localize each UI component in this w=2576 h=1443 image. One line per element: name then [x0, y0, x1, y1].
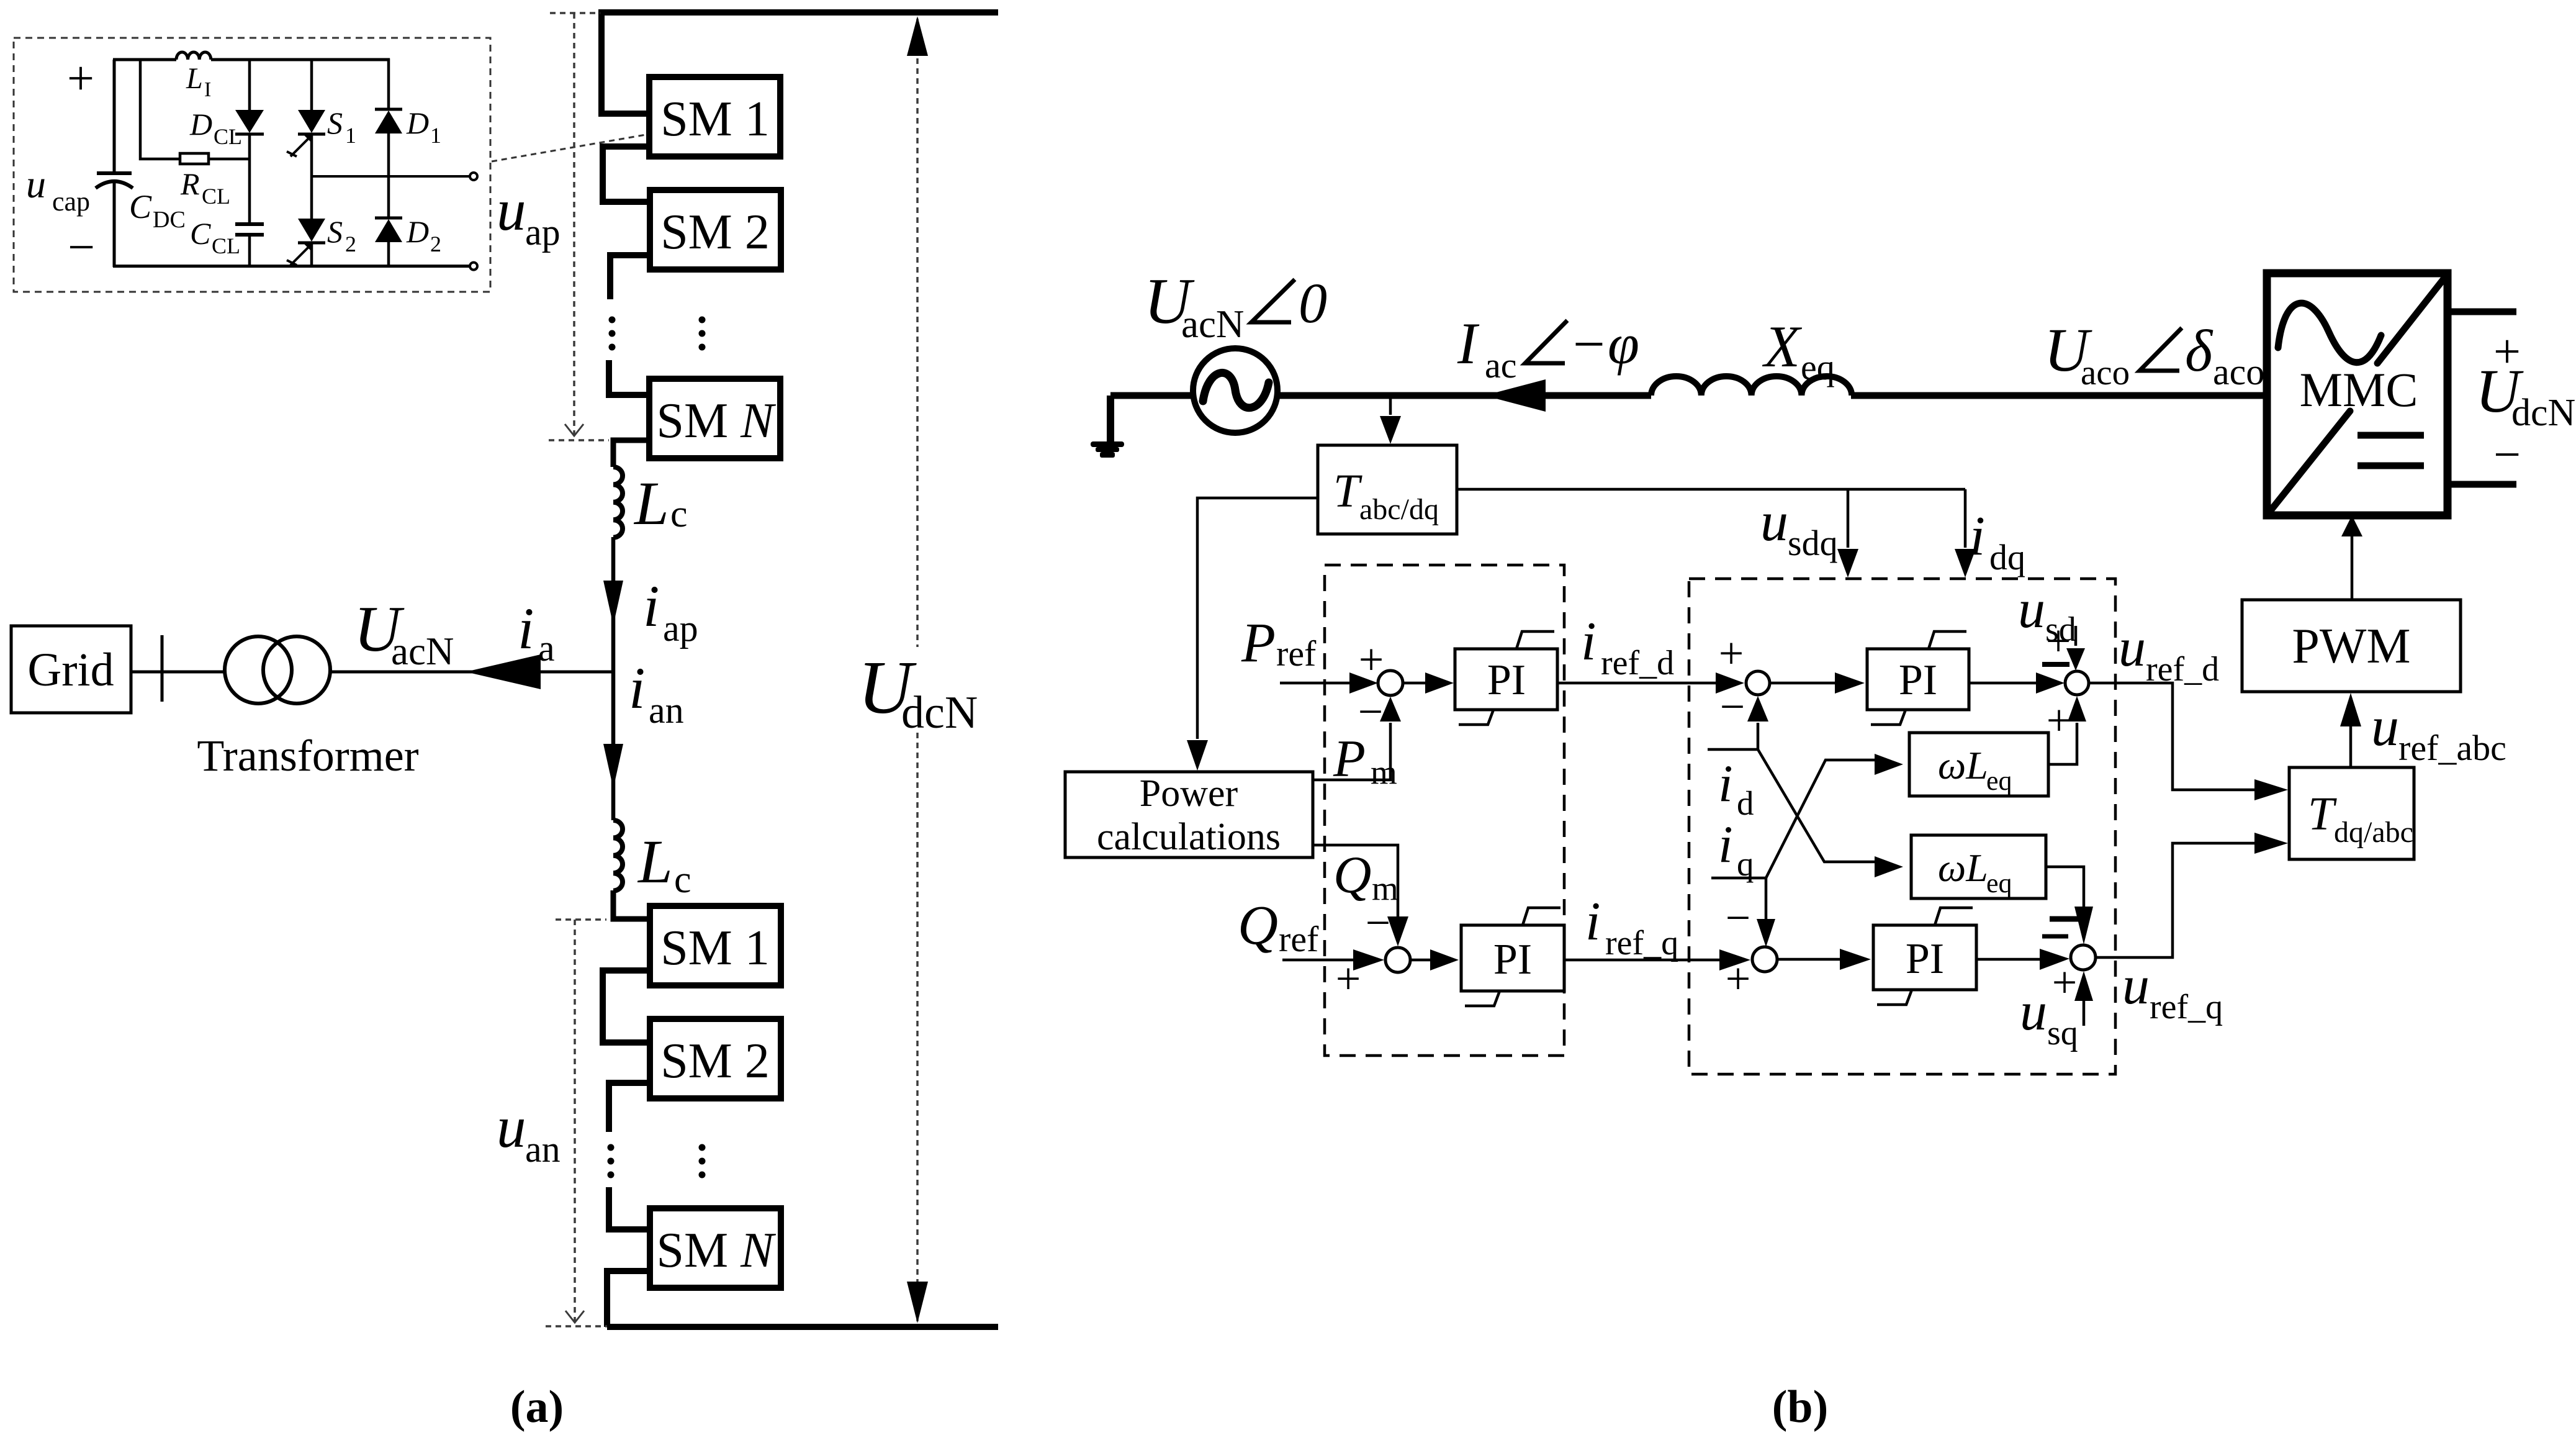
svg-text:SM N: SM N: [657, 394, 777, 448]
label Q_m: [1333, 846, 1398, 907]
label u_sdq: [1760, 491, 1838, 563]
inductor L_I: [176, 52, 211, 60]
svg-text:u: u: [2122, 956, 2150, 1016]
label U_acN angle 0: [1144, 265, 1327, 346]
wire DC terminal plus: [2448, 309, 2516, 315]
svg-text:c: c: [670, 493, 688, 535]
svg-text:i: i: [518, 595, 534, 661]
wire q junction to PI: [1777, 949, 1871, 970]
svg-text:Q: Q: [1238, 895, 1278, 956]
wire SM output node upper: [312, 175, 470, 178]
wire AC bus left segment: [1110, 392, 2267, 399]
AC source U_acN: [1193, 348, 1277, 433]
label plus q junction: [1726, 954, 1751, 1003]
resistor R_CL: [180, 153, 209, 164]
wire inductor to SM 1 lower: [613, 890, 651, 919]
svg-text:D: D: [406, 106, 429, 140]
submodule SM 2 lower: [650, 1019, 781, 1098]
transformer: [225, 636, 330, 703]
svg-text:ref_q: ref_q: [2150, 988, 2223, 1026]
label P_ref: [1241, 612, 1317, 674]
label S2: [327, 214, 356, 256]
label D2: [406, 214, 441, 256]
label L_c lower: [637, 827, 691, 901]
svg-text:i: i: [1718, 754, 1733, 813]
svg-text:S: S: [327, 106, 343, 140]
current arrow i_a: [466, 654, 541, 689]
svg-text:CL: CL: [202, 184, 230, 209]
svg-text:i: i: [1585, 892, 1600, 952]
block Power calculations: [1065, 772, 1313, 858]
wire PI d to output junction: [1969, 672, 2065, 694]
wire stub to SM N upper: [609, 360, 649, 395]
label L_I: [186, 62, 211, 101]
svg-text:a: a: [538, 628, 555, 669]
svg-text:i: i: [1718, 815, 1733, 874]
ground: [1091, 396, 1124, 458]
label Q_ref: [1238, 895, 1319, 959]
svg-text:I: I: [204, 78, 211, 101]
svg-text:ref: ref: [1279, 919, 1319, 959]
svg-text:X: X: [1762, 314, 1803, 379]
label (b): [1772, 1382, 1828, 1432]
arrow i_dq: [1955, 549, 1976, 577]
svg-text:ap: ap: [525, 212, 561, 253]
label i_ap: [643, 573, 698, 649]
label plus Q junction: [1336, 954, 1361, 1003]
label D1: [406, 106, 441, 148]
wire P_m feedback: [1313, 697, 1401, 780]
svg-text:SM 1: SM 1: [660, 921, 770, 975]
label (a): [510, 1382, 564, 1432]
dashed leader line to SM 1: [492, 134, 649, 161]
svg-text:i: i: [1970, 505, 1985, 567]
svg-text:0: 0: [1299, 271, 1327, 335]
label minus d junction: [1720, 682, 1745, 731]
svg-text:CL: CL: [212, 233, 240, 258]
svg-text:(b): (b): [1772, 1382, 1828, 1432]
svg-text:D: D: [189, 107, 212, 142]
svg-text:L: L: [633, 469, 669, 538]
wire i_ref_q: [1564, 949, 1750, 970]
svg-text:ref_d: ref_d: [1601, 644, 1674, 682]
svg-text:+: +: [2046, 616, 2071, 666]
label minus: [2493, 427, 2521, 481]
svg-text:MMC: MMC: [2300, 363, 2418, 417]
svg-text:1: 1: [345, 123, 356, 148]
block T_dq/abc: [2289, 767, 2414, 859]
submodule inset dashed border: [14, 38, 490, 292]
svg-text:aco: aco: [2081, 353, 2130, 392]
ellipsis dots upper right: [699, 317, 706, 351]
svg-text:abc/dq: abc/dq: [1359, 493, 1439, 526]
svg-text:d: d: [1737, 784, 1754, 822]
svg-text:u: u: [2119, 618, 2146, 678]
label minus q junction top: [1726, 893, 1751, 943]
svg-text:+: +: [1726, 954, 1751, 1003]
wire R_CL to D_CL leg: [209, 158, 250, 161]
svg-text:PWM: PWM: [2292, 619, 2410, 674]
label plus u_sd: [2046, 616, 2071, 666]
label I_ac angle -phi: [1457, 310, 1639, 386]
label L_c upper: [633, 469, 688, 538]
wire u_ref_q to T_dq/abc: [2096, 833, 2288, 957]
label P_m: [1333, 730, 1397, 791]
svg-text:−: −: [1726, 893, 1751, 943]
dimension ticks u_ap: [549, 13, 609, 440]
label plus P junction: [1359, 635, 1384, 684]
label u_ref_d: [2119, 618, 2219, 689]
svg-text:u: u: [497, 177, 526, 243]
svg-text:eq: eq: [1986, 766, 2012, 796]
arm inductor L_c lower: [613, 820, 623, 891]
label D_CL: [189, 107, 242, 149]
svg-text:δ: δ: [2185, 318, 2213, 384]
svg-text:ref_d: ref_d: [2146, 650, 2219, 689]
block T_abc/dq: [1318, 445, 1457, 534]
label U_aco angle delta_aco: [2044, 315, 2264, 392]
svg-text:+: +: [1719, 628, 1744, 678]
svg-text:C: C: [129, 188, 152, 225]
svg-text:P: P: [1241, 612, 1276, 674]
wire SM 1 to SM 2 upper: [603, 147, 650, 202]
svg-text:CL: CL: [214, 124, 242, 149]
wire D1 D2 leg: [387, 58, 390, 268]
label U_dcN right: [2475, 356, 2575, 434]
svg-text:an: an: [525, 1129, 561, 1170]
svg-text:(a): (a): [510, 1382, 564, 1432]
wire inductor to AC node: [611, 537, 616, 672]
svg-text:Power: Power: [1140, 772, 1238, 815]
wire SM N to arm inductor: [613, 440, 649, 467]
wire SM 2 down stub upper: [610, 255, 650, 299]
sum junction Q: [1385, 948, 1410, 972]
svg-text:L: L: [637, 827, 673, 896]
ellipsis dots lower left: [608, 1144, 615, 1178]
label i_d: [1718, 754, 1754, 822]
wire i_q cross coupling: [1711, 754, 1903, 878]
wire Q junction to PI: [1410, 949, 1459, 970]
wire i_ref_d: [1557, 672, 1744, 694]
svg-text:R: R: [180, 166, 200, 201]
svg-text:φ: φ: [1608, 312, 1639, 376]
svg-text:+: +: [1336, 954, 1361, 1003]
label minus Q junction: [1366, 898, 1391, 948]
svg-text:Grid: Grid: [27, 644, 114, 696]
submodule SM N lower: [650, 1208, 781, 1288]
label u_an: [497, 1094, 561, 1170]
svg-text:eq: eq: [1986, 868, 2012, 898]
svg-text:i: i: [1581, 612, 1596, 672]
wire DC terminal minus: [2448, 481, 2516, 488]
wire P junction to PI: [1403, 672, 1454, 694]
svg-text:ac: ac: [1485, 345, 1517, 386]
svg-text:ap: ap: [663, 608, 698, 649]
svg-text:−: −: [68, 220, 95, 274]
wire omega L_eq q into junction: [2046, 867, 2093, 944]
svg-text:ωL: ωL: [1938, 846, 1988, 890]
label u_sd: [2018, 579, 2076, 649]
PI controller P loop: [1455, 631, 1557, 725]
label plus omega L d: [2047, 695, 2072, 745]
svg-text:PI: PI: [1487, 656, 1526, 704]
svg-text:D: D: [406, 214, 429, 249]
dashed box power control loop: [1325, 565, 1564, 1056]
label Transformer: [197, 731, 418, 780]
label R_CL: [180, 166, 230, 209]
svg-text:SM 1: SM 1: [660, 92, 770, 147]
block omega L_eq upper: [1909, 733, 2048, 796]
svg-text:−: −: [1573, 312, 1605, 376]
submodule SM 2 upper: [650, 190, 781, 269]
svg-text:dcN: dcN: [901, 687, 978, 738]
label i_dq: [1970, 505, 2025, 577]
svg-text:i: i: [643, 573, 659, 639]
svg-text:2: 2: [345, 232, 356, 256]
current arrow I_ac: [1484, 379, 1546, 412]
label u_ap: [497, 177, 561, 253]
svg-text:u: u: [1760, 491, 1788, 553]
svg-text:C: C: [190, 216, 211, 251]
svg-text:+: +: [67, 51, 94, 105]
label i_a: [518, 595, 555, 669]
wire omega L_eq d into junction: [2048, 696, 2086, 764]
svg-text:+: +: [2047, 695, 2072, 745]
svg-text:m: m: [1372, 869, 1398, 907]
label minus omega L q upper: [2050, 916, 2078, 922]
label u_sq: [2020, 982, 2078, 1052]
label minus u_sd: [2042, 662, 2069, 667]
wire SM 1 to SM 2 lower: [603, 970, 650, 1043]
arm inductor L_c upper: [613, 467, 623, 538]
label i_ref_q: [1585, 892, 1678, 962]
wire d junction to PI: [1770, 672, 1865, 694]
svg-text:T: T: [1333, 465, 1362, 517]
svg-text:dcN: dcN: [2511, 392, 2575, 434]
sum junction P: [1378, 671, 1403, 695]
svg-text:−: −: [1358, 687, 1384, 736]
capacitor C_CL: [235, 224, 264, 235]
svg-text:S: S: [327, 214, 343, 249]
ellipsis dots upper left: [609, 317, 616, 351]
label i_an: [629, 655, 684, 731]
label plus u_sq: [2052, 957, 2078, 1007]
block omega L_eq lower: [1911, 835, 2046, 898]
label plus d junction: [1719, 628, 1744, 678]
wire SM 2 down stub lower: [609, 1083, 650, 1132]
plus polarity label: [67, 51, 94, 105]
svg-text:dq/abc: dq/abc: [2334, 816, 2413, 849]
wire top rail of SM bridge: [113, 58, 390, 61]
ellipsis dots lower right: [699, 1144, 706, 1178]
svg-text:−: −: [2493, 427, 2521, 481]
PI controller Q loop: [1461, 908, 1564, 1006]
svg-text:calculations: calculations: [1097, 816, 1281, 858]
svg-text:PI: PI: [1906, 935, 1944, 983]
label u_cap: [26, 162, 90, 217]
dimension line U_dcN: [907, 16, 928, 1323]
svg-text:sq: sq: [2047, 1014, 2078, 1052]
wire stub to SM N lower: [609, 1187, 650, 1229]
wire bottom DC rail: [607, 1324, 998, 1330]
wire i_d cross coupling: [1758, 749, 1903, 877]
submodule SM N upper: [649, 379, 780, 458]
wire Tdqabc to PWM: [2340, 693, 2361, 767]
svg-text:acN: acN: [1181, 302, 1244, 346]
wire P_ref input: [1280, 672, 1378, 694]
svg-text:ref_q: ref_q: [1605, 924, 1678, 962]
label S1: [327, 106, 356, 148]
svg-text:Transformer: Transformer: [197, 731, 418, 780]
block Grid: [11, 626, 131, 713]
label i_ref_d: [1581, 612, 1674, 682]
svg-text:an: an: [649, 690, 684, 731]
wire S1 S2 leg: [310, 58, 313, 268]
terminal lower: [470, 263, 477, 270]
wire Q_m feedback: [1313, 845, 1408, 946]
sum junction d output: [2065, 671, 2089, 695]
svg-text:dq: dq: [1989, 537, 2025, 577]
svg-text:u: u: [26, 162, 46, 206]
submodule SM 1 lower: [650, 906, 781, 985]
dimension ticks u_an: [546, 920, 607, 1326]
thyristor S1: [287, 110, 325, 156]
label i_q: [1718, 815, 1754, 883]
wire SM N to bottom rail: [607, 1271, 650, 1327]
svg-text:1: 1: [430, 123, 441, 148]
wire AC node to lower inductor: [611, 672, 616, 820]
wire transformer to AC node: [330, 671, 613, 674]
svg-text:SM N: SM N: [657, 1223, 777, 1278]
svg-text:sdq: sdq: [1788, 523, 1838, 563]
label C_DC: [129, 188, 186, 233]
submodule SM 1 upper: [649, 77, 780, 156]
svg-text:+: +: [2052, 957, 2078, 1007]
svg-text:T: T: [2308, 788, 2337, 840]
label U_acN: [354, 592, 454, 673]
wire D_CL leg: [248, 58, 251, 268]
svg-text:I: I: [1457, 310, 1480, 376]
terminal upper: [470, 173, 477, 180]
equivalent reactance X_eq: [1651, 376, 1852, 396]
svg-text:SM 2: SM 2: [660, 1034, 770, 1088]
label minus P junction: [1358, 687, 1384, 736]
diode D1: [375, 109, 402, 133]
wire PI q to output junction: [1976, 949, 2069, 970]
arrow u_sq into junction: [2074, 971, 2093, 1026]
wire T_abc/dq measurement bus: [1457, 489, 1965, 548]
label plus: [2493, 324, 2521, 378]
label U_dcN: [858, 646, 978, 738]
arrow u_sd into junction: [2066, 626, 2085, 671]
svg-text:cap: cap: [52, 186, 90, 217]
svg-text:PI: PI: [1899, 656, 1937, 704]
svg-text:PI: PI: [1493, 936, 1532, 984]
minus polarity label: [68, 220, 95, 274]
wire upper arm to SM 1: [601, 9, 649, 114]
wire SM bottom rail: [113, 265, 470, 268]
svg-text:−: −: [1720, 682, 1745, 731]
svg-text:P: P: [1333, 730, 1366, 788]
svg-text:Q: Q: [1333, 846, 1371, 904]
svg-text:ωL: ωL: [1938, 743, 1988, 787]
svg-text:m: m: [1371, 753, 1397, 791]
svg-text:u: u: [2371, 696, 2399, 758]
wire i_d feedback up: [1708, 696, 1768, 749]
wire u_ref_d to T_dq/abc: [2089, 683, 2288, 800]
PI controller q loop: [1873, 908, 1976, 1005]
wire T_abc/dq to Power calculations: [1187, 498, 1318, 771]
wire AC bus to T_abc/dq: [1380, 396, 1401, 444]
converter MMC: [2267, 273, 2448, 515]
bus bar tick: [161, 635, 164, 702]
wire i_q feedback down: [1757, 878, 1775, 947]
svg-text:c: c: [674, 859, 691, 901]
thyristor S2: [287, 219, 325, 265]
diode D2: [375, 218, 402, 242]
sum junction d error: [1746, 671, 1770, 695]
svg-text:aco: aco: [2213, 351, 2264, 392]
svg-text:acN: acN: [391, 630, 454, 673]
capacitor C_DC: [96, 60, 133, 267]
current arrow i_an: [603, 744, 623, 789]
arrow u_sdq: [1837, 549, 1858, 577]
wire branch to R_CL: [140, 60, 180, 159]
label u_ref_abc: [2371, 696, 2506, 768]
wire Q_ref input: [1282, 949, 1384, 970]
svg-text:i: i: [629, 655, 645, 721]
diode D_CL: [235, 110, 264, 134]
block PWM: [2242, 600, 2461, 692]
svg-text:u: u: [497, 1094, 526, 1160]
svg-text:L: L: [186, 62, 203, 95]
wire top DC rail: [599, 9, 998, 16]
svg-text:u: u: [2018, 579, 2045, 640]
sum junction q error: [1752, 947, 1777, 972]
label C_CL: [190, 216, 240, 258]
wire Grid to transformer: [131, 671, 226, 674]
svg-text:SM 2: SM 2: [660, 205, 770, 260]
svg-text:2: 2: [430, 232, 441, 256]
label u_ref_q: [2122, 956, 2223, 1026]
svg-text:ref_abc: ref_abc: [2398, 728, 2506, 768]
dimension line u_an: [565, 920, 584, 1326]
svg-text:eq: eq: [1801, 347, 1835, 387]
svg-text:ref: ref: [1276, 633, 1317, 674]
PI controller d loop: [1867, 631, 1969, 725]
sum junction q output: [2071, 945, 2096, 970]
dashed box current control loop: [1689, 579, 2115, 1074]
svg-text:u: u: [2020, 982, 2047, 1042]
svg-text:DC: DC: [153, 207, 186, 233]
wire PWM to MMC: [2341, 515, 2362, 600]
label minus omega L q lower: [2042, 934, 2068, 939]
dimension line u_ap: [565, 13, 583, 440]
label X_eq: [1762, 314, 1835, 387]
current arrow i_ap: [603, 581, 623, 625]
